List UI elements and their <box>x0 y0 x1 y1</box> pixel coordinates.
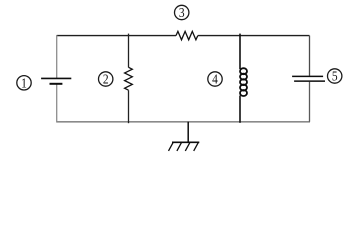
ground: stem <box>187 122 189 143</box>
label (4): circled 4 <box>208 72 222 87</box>
wire: left rail below battery <box>56 85 58 122</box>
wire: right rail below capacitor <box>309 82 311 122</box>
ground: horizontal bar <box>172 141 199 143</box>
wire: left rail above battery <box>56 35 58 78</box>
wire: top rail, left segment <box>57 35 176 37</box>
capacitor (5): top plate <box>292 75 323 77</box>
wire: bottom rail <box>56 121 310 123</box>
wire: inductor (4) top lead <box>239 34 241 69</box>
svg-text:1: 1 <box>21 75 27 90</box>
wire: resistor (2) bottom lead <box>128 90 130 123</box>
wire: inductor (4) bottom lead <box>239 96 241 123</box>
label (5): circled 5 <box>328 69 342 84</box>
wire: top rail, right segment <box>198 35 310 37</box>
svg-text:2: 2 <box>103 72 109 87</box>
svg-text:3: 3 <box>179 5 185 20</box>
ground: hatch stroke 2 <box>177 142 182 151</box>
ground: hatch stroke 4 <box>194 142 199 151</box>
battery (1): short negative plate <box>50 83 63 85</box>
ground: hatch stroke 1 <box>169 142 174 151</box>
ground: hatch stroke 3 <box>185 142 190 151</box>
inductor (4): coil of five loops <box>240 68 247 96</box>
svg-text:4: 4 <box>212 72 218 87</box>
capacitor (5): bottom plate <box>294 80 325 82</box>
label (2): circled 2 <box>99 72 113 87</box>
wire: resistor (2) top lead <box>128 34 130 68</box>
label (3): circled 3 <box>175 5 189 20</box>
resistor (3): horizontal zigzag in top rail <box>176 31 198 39</box>
svg-text:5: 5 <box>332 69 338 84</box>
resistor (2): vertical zigzag <box>125 67 133 90</box>
label (1): circled 1 <box>17 75 31 90</box>
wire: right rail above capacitor <box>309 36 311 76</box>
battery (1): long positive plate <box>41 77 71 79</box>
